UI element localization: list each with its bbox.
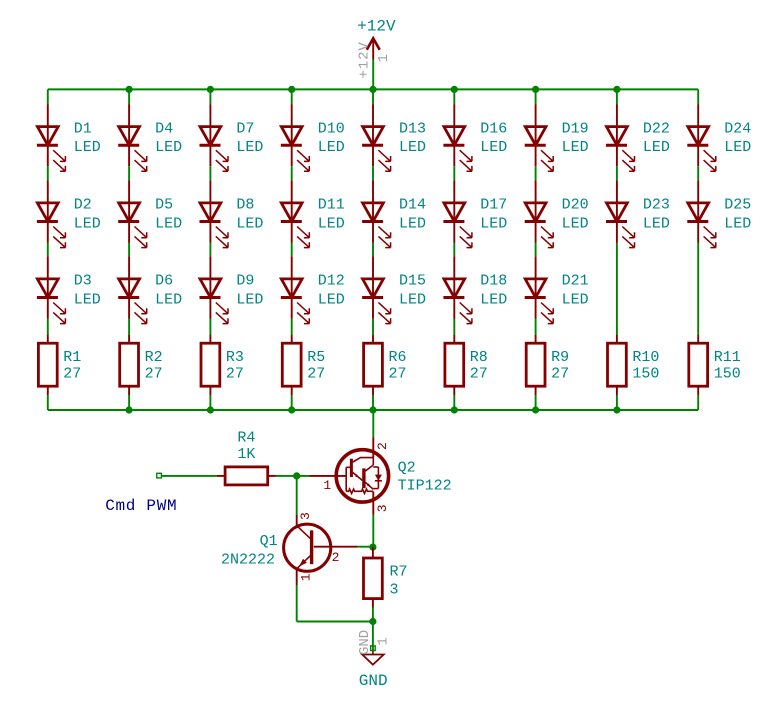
svg-text:LED: LED — [74, 291, 101, 308]
svg-text:LED: LED — [318, 291, 345, 308]
svg-text:LED: LED — [643, 215, 670, 232]
svg-text:LED: LED — [480, 139, 507, 156]
svg-text:1: 1 — [323, 478, 331, 493]
svg-text:LED: LED — [155, 215, 182, 232]
resistor R7 pins — [372, 547, 374, 558]
LED D12 — [281, 279, 310, 324]
svg-text:+12V: +12V — [357, 17, 396, 35]
svg-text:27: 27 — [389, 366, 407, 383]
LED D22 — [606, 127, 635, 172]
svg-text:D2: D2 — [74, 197, 92, 214]
svg-text:D18: D18 — [480, 273, 507, 290]
LED D14 — [362, 203, 391, 248]
svg-text:1: 1 — [376, 54, 392, 62]
svg-text:LED: LED — [236, 139, 263, 156]
junction bottom rail col 6 — [451, 406, 458, 413]
junction bottom rail col 3 — [207, 406, 214, 413]
resistor R11 — [689, 343, 708, 386]
svg-text:D3: D3 — [74, 273, 92, 290]
junction bottom rail col 2 — [126, 406, 133, 413]
svg-text:D22: D22 — [643, 120, 670, 137]
resistor R7 — [364, 558, 383, 599]
LED D11 — [281, 203, 310, 248]
LED D16 — [443, 127, 472, 172]
wire column 9 vertical — [697, 89, 699, 104]
svg-text:D25: D25 — [724, 197, 751, 214]
wire column 2 vertical — [128, 89, 130, 104]
svg-text:D24: D24 — [724, 120, 751, 137]
transistor Q2 — [310, 438, 389, 515]
resistor R10 — [608, 343, 627, 386]
svg-text:LED: LED — [155, 139, 182, 156]
svg-text:GND: GND — [359, 672, 388, 690]
svg-text:LED: LED — [236, 291, 263, 308]
LED D3 — [37, 279, 66, 324]
svg-text:LED: LED — [643, 139, 670, 156]
svg-text:R6: R6 — [389, 349, 407, 366]
resistor R3 — [201, 343, 220, 386]
junction top rail col 5 — [369, 86, 376, 93]
svg-text:27: 27 — [63, 366, 81, 383]
svg-text:D4: D4 — [155, 120, 173, 137]
svg-text:LED: LED — [562, 215, 589, 232]
svg-text:3: 3 — [375, 504, 390, 512]
svg-text:150: 150 — [632, 366, 659, 383]
svg-text:LED: LED — [724, 215, 751, 232]
svg-text:150: 150 — [714, 366, 741, 383]
svg-text:3: 3 — [390, 582, 399, 599]
svg-text:R10: R10 — [632, 349, 659, 366]
wire column 5 vertical — [372, 89, 374, 104]
LED D9 — [200, 279, 229, 324]
LED D25 — [687, 203, 716, 248]
junction bottom rail col 7 — [532, 406, 539, 413]
svg-text:R5: R5 — [307, 349, 325, 366]
LED D8 — [200, 203, 229, 248]
wire top rail +12V bus — [48, 88, 698, 90]
svg-text:GND: GND — [357, 630, 373, 655]
svg-text:Q2: Q2 — [398, 460, 416, 477]
svg-text:D20: D20 — [562, 197, 589, 214]
svg-text:D5: D5 — [155, 197, 173, 214]
ground symbol — [362, 651, 384, 665]
svg-text:D17: D17 — [480, 197, 507, 214]
svg-text:R1: R1 — [63, 349, 81, 366]
power symbol +12V — [367, 38, 380, 59]
svg-text:D15: D15 — [399, 273, 426, 290]
svg-text:LED: LED — [562, 291, 589, 308]
wire column 4 vertical — [291, 89, 293, 104]
svg-text:D14: D14 — [399, 197, 426, 214]
svg-text:LED: LED — [562, 139, 589, 156]
wire column 6 vertical — [453, 89, 455, 104]
resistor R4 pins — [217, 475, 225, 477]
svg-text:TIP122: TIP122 — [398, 478, 452, 495]
svg-text:D23: D23 — [643, 197, 670, 214]
LED D20 — [525, 203, 554, 248]
wire junction down to Q1 base — [296, 476, 298, 515]
wire column 7 vertical — [535, 89, 537, 104]
junction node GND — [369, 618, 376, 625]
svg-text:LED: LED — [480, 291, 507, 308]
svg-text:1K: 1K — [237, 446, 255, 463]
resistor R1 — [38, 343, 57, 386]
svg-text:R8: R8 — [470, 349, 488, 366]
transistor Q1 — [284, 515, 358, 585]
resistor R4 — [225, 467, 268, 485]
svg-text:LED: LED — [399, 139, 426, 156]
junction bottom rail col 5 — [369, 406, 376, 413]
LED D19 — [525, 127, 554, 172]
svg-text:R11: R11 — [714, 349, 741, 366]
wire Cmd PWM to R4 — [161, 475, 217, 477]
svg-text:+12V: +12V — [357, 41, 373, 78]
svg-text:D11: D11 — [318, 197, 345, 214]
wire R4 to junction and Q2 base — [276, 475, 310, 477]
svg-text:LED: LED — [236, 215, 263, 232]
svg-text:LED: LED — [399, 291, 426, 308]
LED D13 — [362, 127, 391, 172]
svg-text:R7: R7 — [390, 564, 408, 581]
svg-text:D7: D7 — [236, 120, 254, 137]
resistor R8 — [445, 343, 464, 386]
svg-text:LED: LED — [74, 215, 101, 232]
junction top rail col 6 — [451, 86, 458, 93]
svg-text:D8: D8 — [236, 197, 254, 214]
LED D21 — [525, 279, 554, 324]
LED D24 — [687, 127, 716, 172]
svg-text:LED: LED — [724, 139, 751, 156]
LED D7 — [200, 127, 229, 172]
svg-text:27: 27 — [145, 366, 163, 383]
junction node R4/Q1/Q2 — [293, 472, 300, 479]
svg-text:D6: D6 — [155, 273, 173, 290]
svg-text:LED: LED — [480, 215, 507, 232]
svg-text:D21: D21 — [562, 273, 589, 290]
svg-text:LED: LED — [318, 139, 345, 156]
resistor R2 — [120, 343, 139, 386]
svg-text:27: 27 — [307, 366, 325, 383]
resistor R5 — [282, 343, 301, 386]
junction top rail col 3 — [207, 86, 214, 93]
node GND pin end square — [371, 646, 376, 651]
wire Q1 base to junction — [358, 546, 374, 548]
svg-text:R4: R4 — [237, 430, 255, 447]
LED D23 — [606, 203, 635, 248]
svg-text:Cmd PWM: Cmd PWM — [105, 497, 177, 515]
LED D17 — [443, 203, 472, 248]
node Cmd PWM wire end square — [157, 473, 162, 478]
wire column 3 vertical — [209, 89, 211, 104]
svg-text:D13: D13 — [399, 120, 426, 137]
junction top rail col 8 — [613, 86, 620, 93]
wire +12V to rail — [372, 60, 374, 90]
junction bottom rail col 4 — [288, 406, 295, 413]
LED D6 — [118, 279, 147, 324]
svg-text:27: 27 — [551, 366, 569, 383]
svg-text:1: 1 — [299, 573, 314, 581]
wire Q1 emitter to ground rail — [297, 621, 373, 623]
svg-text:3: 3 — [298, 512, 313, 520]
LED D15 — [362, 279, 391, 324]
svg-text:R3: R3 — [226, 349, 244, 366]
svg-text:D16: D16 — [480, 120, 507, 137]
junction top rail col 4 — [288, 86, 295, 93]
LED D10 — [281, 127, 310, 172]
resistor R9 — [526, 343, 545, 386]
svg-text:2: 2 — [332, 550, 340, 565]
LED D18 — [443, 279, 472, 324]
LED D2 — [37, 203, 66, 248]
wire Q2 emitter to junction — [372, 515, 374, 548]
svg-text:27: 27 — [226, 366, 244, 383]
wire bottom rail — [48, 409, 698, 411]
svg-text:R9: R9 — [551, 349, 569, 366]
wire column 1 vertical — [47, 89, 49, 104]
wire Q1 emitter down — [296, 585, 298, 622]
junction top rail col 7 — [532, 86, 539, 93]
LED D5 — [118, 203, 147, 248]
svg-text:D1: D1 — [74, 120, 92, 137]
junction node Q2 emitter / Q1 base / R7 — [369, 544, 376, 551]
wire LED rail down to Q2 collector — [372, 410, 374, 438]
svg-text:Q1: Q1 — [260, 533, 278, 550]
junction bottom rail col 8 — [613, 406, 620, 413]
svg-text:27: 27 — [470, 366, 488, 383]
resistor R6 — [364, 343, 383, 386]
LED D4 — [118, 127, 147, 172]
svg-text:LED: LED — [155, 291, 182, 308]
svg-text:R2: R2 — [145, 349, 163, 366]
svg-text:D10: D10 — [318, 120, 345, 137]
svg-text:2: 2 — [375, 442, 390, 450]
junction top rail col 2 — [126, 86, 133, 93]
wire R7 to GND junction — [372, 608, 374, 622]
wire column 8 vertical — [616, 89, 618, 104]
svg-text:D9: D9 — [236, 273, 254, 290]
svg-text:2N2222: 2N2222 — [221, 551, 275, 568]
svg-text:LED: LED — [399, 215, 426, 232]
svg-text:1: 1 — [375, 637, 391, 645]
LED D1 — [37, 127, 66, 172]
svg-text:LED: LED — [74, 139, 101, 156]
svg-text:D19: D19 — [562, 120, 589, 137]
wire junction to GND symbol — [372, 622, 374, 652]
svg-text:LED: LED — [318, 215, 345, 232]
svg-text:D12: D12 — [318, 273, 345, 290]
